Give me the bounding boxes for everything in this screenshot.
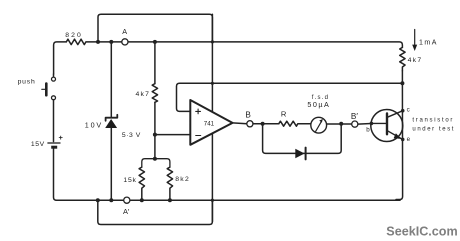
svg-text:SeekIC.com: SeekIC.com [386,225,457,239]
junction 5.3V node [153,133,157,137]
resistor 15k [139,167,144,200]
svg-text:4k7: 4k7 [408,57,423,64]
junction 15k bottom [140,198,144,202]
junction at 820 / top rail [96,40,100,44]
divider top bar [142,159,170,167]
push button switch [42,74,56,142]
junction 4k7 tap [153,40,157,44]
wire diode branch [263,124,342,154]
wire feedback rail [177,83,403,111]
svg-text:A: A [122,27,127,36]
resistor 4k7 (mid) vertical [152,42,157,159]
junction collector [401,109,405,113]
svg-text:e: e [407,136,411,143]
meter M1 50uA [311,117,327,133]
junction emitter [401,138,405,142]
junction 4k7 bottom / collector rail [400,81,404,85]
svg-text:820: 820 [65,32,83,39]
node A [122,39,128,45]
arrow 1mA [412,30,417,52]
battery 15V [47,143,60,200]
resistor 4k7 (right) vertical [400,47,405,83]
svg-text:+: + [59,133,64,142]
svg-text:c: c [407,107,410,114]
resistor 820 [66,39,98,44]
resistor R [279,121,311,126]
junction diode left tap [261,122,265,126]
junction bottom loop left [96,198,100,202]
junction zener tap [109,40,113,44]
junction divider top [153,157,157,161]
op-amp U1 741 [190,100,232,145]
svg-text:b: b [366,126,370,133]
svg-text:741: 741 [204,121,215,128]
svg-text:push: push [18,78,36,85]
svg-text:8k2: 8k2 [175,176,190,183]
junction base at circle edge [370,122,374,126]
svg-text:10V: 10V [85,121,103,130]
svg-text:A′: A′ [123,207,130,216]
node A' [124,197,130,203]
svg-text:B: B [245,110,251,119]
svg-text:R: R [281,110,287,119]
wire A right to 4k7 [128,42,402,48]
svg-text:transistor: transistor [412,118,454,124]
svg-text:50µA: 50µA [307,100,330,109]
node B [247,121,253,127]
svg-text:under test: under test [412,126,455,132]
wire op-amp minus input [155,134,190,136]
wire main horizontal +V [54,42,67,74]
junction bottom rail crossing [211,199,214,202]
resistor 8k2 [167,167,172,200]
svg-text:5·3 V: 5·3 V [122,132,141,139]
svg-text:4k7: 4k7 [136,91,151,98]
junction zener bottom [109,198,113,202]
wire bottom rail [56,199,400,201]
wire op-amp output [233,122,247,125]
node B' [352,121,358,127]
svg-text:1mA: 1mA [419,39,438,46]
wire B' to base [358,123,371,126]
junction feedback crossing [211,82,214,85]
wire collector/emitter vertical [396,83,403,199]
wire top rail [98,14,212,42]
junction supply vertical crossing [211,40,214,43]
wire A left [98,41,122,43]
wire B to R [253,123,279,125]
svg-text:B′: B′ [351,112,358,121]
wire supply vertical behind op-amp [211,14,213,221]
wire meter to B' [327,123,352,125]
transistor Q1 under test [371,110,403,142]
svg-text:15k: 15k [123,177,136,184]
diode D1 [295,148,305,160]
junction 8k2 bottom [168,198,172,202]
zener diode 10V [105,42,117,200]
junction diode right tap [339,122,343,126]
svg-text:15V: 15V [31,141,45,148]
wire bottom loop [98,200,213,224]
